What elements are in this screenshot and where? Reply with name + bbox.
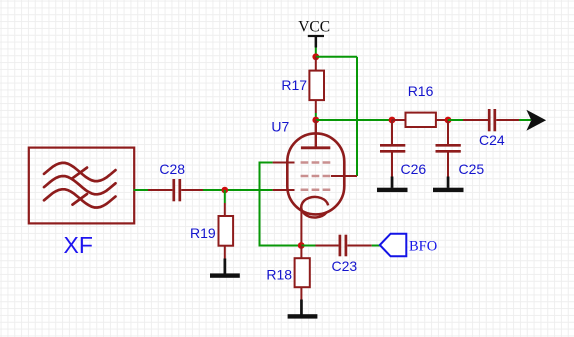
svg-text:R16: R16: [408, 83, 434, 99]
wire C24 to output: [519, 119, 531, 121]
ground at C25: [433, 177, 464, 193]
svg-text:U7: U7: [271, 119, 289, 135]
capacitor C23: [316, 235, 372, 257]
svg-text:R19: R19: [190, 225, 216, 241]
svg-text:C25: C25: [459, 161, 485, 177]
svg-text:R17: R17: [281, 77, 307, 93]
svg-text:VCC: VCC: [298, 19, 330, 36]
resistor R17: [309, 57, 324, 113]
svg-text:XF: XF: [64, 232, 93, 258]
junction R16-C25 node: [445, 117, 452, 124]
ground at R19: [210, 259, 240, 278]
ground at C26: [377, 177, 408, 193]
capacitor C26: [380, 120, 405, 177]
svg-text:BFO: BFO: [409, 239, 437, 255]
wire C25 node to C24: [448, 119, 463, 121]
wire XF to C28: [134, 189, 149, 191]
power VCC: [308, 35, 324, 48]
capacitor C25: [436, 120, 461, 177]
wire screen grid vertical: [356, 57, 358, 176]
output arrow: [526, 110, 546, 131]
wire VCC stem: [315, 48, 317, 56]
capacitor C24: [463, 109, 519, 131]
port BFO: [380, 234, 407, 257]
resistor R18: [295, 246, 310, 300]
wire plate rail: [316, 119, 392, 121]
capacitor C28: [148, 179, 203, 201]
junction node input: [222, 187, 229, 194]
resistor R19: [219, 203, 234, 259]
wire R17 to plate node: [315, 113, 317, 120]
junction R16-C26 node: [389, 117, 396, 124]
wire C28 to tube grid: [203, 189, 273, 191]
wire C23 to BFO port: [372, 245, 380, 247]
wire junction to R19: [224, 190, 226, 203]
junction cathode node: [298, 242, 305, 249]
svg-text:C23: C23: [332, 258, 358, 274]
junction VCC node: [312, 53, 319, 60]
wire grid1 to cathode: [260, 163, 302, 246]
filter XF: [29, 148, 134, 224]
svg-text:C26: C26: [401, 161, 427, 177]
ground at R18: [288, 300, 318, 319]
svg-text:R18: R18: [266, 267, 292, 283]
vacuum tube U7: [273, 120, 357, 246]
wire VCC node to right: [316, 56, 357, 58]
svg-text:C24: C24: [479, 132, 505, 148]
svg-text:C28: C28: [159, 161, 185, 177]
resistor R16: [392, 113, 448, 127]
wire cathode node to C23: [301, 245, 315, 247]
junction plate node: [312, 117, 319, 124]
